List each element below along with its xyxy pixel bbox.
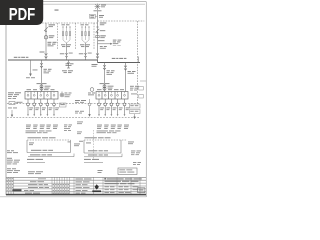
- lineup 2 load name labels: [97, 125, 129, 129]
- title leading mark: [104, 178, 106, 180]
- switchgear lineup 2: [96, 92, 128, 100]
- MCC 1 name underline: [28, 154, 74, 157]
- future note box 1: [130, 104, 141, 108]
- dashed divider: [75, 23, 77, 50]
- rack1 drawout chevrons: [65, 53, 68, 57]
- MCC enclosure 2: [84, 140, 127, 153]
- wire rack2 to bus: [85, 43, 87, 60]
- MCC 1 sub label: [27, 158, 43, 161]
- note box text: [60, 103, 65, 106]
- feeder 3 chevrons: [124, 66, 127, 70]
- feeder 1 chevrons: [40, 63, 43, 67]
- sheet number text: [119, 169, 134, 172]
- title block fields: [105, 186, 144, 193]
- wire center drop: [88, 99, 91, 116]
- company logo: [95, 184, 99, 189]
- lineup 2 labels: [97, 88, 124, 91]
- chevron label: [40, 52, 45, 53]
- dashed enclosure line B: [98, 20, 145, 22]
- left load arrow: [11, 110, 13, 117]
- bus tie: [97, 60, 99, 63]
- dashed right boundary: [137, 21, 139, 104]
- dashed divider: [57, 23, 59, 50]
- note box G1: [60, 103, 67, 107]
- dashed floor line 1: [7, 103, 140, 105]
- generator G1: [60, 92, 64, 97]
- reference bubble 2: [139, 95, 144, 99]
- MCC 1 cable label: [31, 150, 53, 151]
- wire incoming feeder: [97, 9, 99, 23]
- PT rack 1 label: [62, 24, 70, 25]
- breaker label: [49, 35, 55, 38]
- dashed divider: [93, 23, 95, 50]
- transformer T1: [40, 85, 43, 90]
- switch label: [49, 24, 56, 27]
- sheet left frame: [5, 2, 7, 195]
- top note text: [55, 10, 59, 11]
- MCC 1 name label: [30, 153, 52, 156]
- transformer T1 label: [37, 83, 51, 88]
- bus 2 end tick: [138, 57, 140, 63]
- MCC 1 sub underline: [27, 161, 45, 163]
- PT rack 2: [81, 27, 89, 43]
- aux breaker right: [90, 88, 94, 92]
- wire transformer feeder 1: [41, 60, 43, 92]
- PT rack 2 arrow tips: [81, 26, 89, 28]
- PT rack 1: [62, 27, 70, 43]
- switchgear lineup 1: [25, 92, 58, 100]
- right margin tick: [140, 80, 146, 82]
- revision table columns: [9, 177, 141, 194]
- bus 2 note: [92, 64, 98, 67]
- MCC 2 sub label: [84, 158, 99, 161]
- rack2 drop label: [79, 53, 92, 55]
- right load arrow: [134, 114, 136, 119]
- disconnect switch 89-1: [44, 27, 48, 32]
- PT rack 2 value label: [80, 44, 90, 47]
- PT rack 1 arrow tips: [62, 26, 70, 28]
- drawout breaker chevrons: [45, 54, 48, 59]
- MCC enclosure 1 label: [28, 137, 56, 138]
- ground label: [8, 102, 23, 109]
- generator label: [65, 93, 72, 98]
- lineup 1 breakers: [27, 94, 55, 96]
- wire spare feeder: [67, 60, 70, 68]
- left margin notes 2: [7, 158, 20, 165]
- MCC 2 name label: [88, 154, 108, 157]
- rack2 drawout chevrons: [84, 53, 87, 57]
- sheet number cell box: [138, 188, 145, 193]
- lineup 2 feeder drops: [98, 99, 126, 115]
- fuse 2: [96, 36, 99, 38]
- MCC 2 inner marks: [79, 141, 91, 144]
- revision table bottom: [6, 194, 146, 196]
- wire transformer feeder 3: [125, 63, 127, 92]
- wire load B: [30, 60, 32, 76]
- MCC 2 sub underline: [84, 161, 103, 163]
- disconnect switch 89-2: [96, 27, 100, 33]
- wire feeder 2: [97, 23, 99, 60]
- lineup 1 load name labels: [26, 125, 58, 129]
- lineup 1 feeder drops: [27, 99, 56, 115]
- page bottom border: [0, 196, 146, 198]
- small marks left of box: [98, 170, 103, 173]
- meter box text: [90, 15, 94, 17]
- bus 1 4160V: [8, 59, 98, 61]
- sheet inner top frame: [6, 3, 145, 5]
- lineup 1 load arrows: [27, 114, 55, 116]
- lineup 1 drop labels: [29, 108, 59, 111]
- MCC 2 cable label: [88, 150, 108, 151]
- svg-text:PDF: PDF: [9, 4, 36, 24]
- dashed drop line: [93, 130, 95, 160]
- station service notes left: [8, 92, 21, 99]
- MCC enclosure 2 label: [85, 137, 111, 138]
- lineup 2 band notes: [97, 131, 121, 134]
- revision table frame: [6, 177, 146, 192]
- note block center: [75, 100, 86, 113]
- MCC 1 inner marks: [29, 142, 71, 146]
- lineup 1 labels: [27, 88, 55, 91]
- feeder note: [99, 15, 104, 18]
- PDF badge: [0, 0, 43, 25]
- wire branch to generator: [98, 43, 112, 45]
- right lower notes: [128, 142, 141, 165]
- center gap notes: [74, 144, 80, 147]
- breaker 52-1: [44, 36, 47, 39]
- transformer T2 label: [100, 83, 114, 88]
- future note box 1 text: [130, 104, 138, 107]
- dashed floor line 2: [7, 117, 140, 119]
- PT rack 1 value label: [61, 44, 71, 47]
- page top border: [0, 1, 146, 3]
- load B label: [26, 70, 38, 79]
- approval column entries: [76, 179, 92, 194]
- wire rack1 to bus: [66, 43, 68, 60]
- revision entries: [7, 178, 69, 193]
- page right border: [145, 2, 147, 197]
- wire transformer feeder 2: [104, 63, 106, 92]
- bus 2 label: [112, 58, 127, 59]
- feeder 3 cable label: [128, 71, 136, 74]
- branch label: [113, 40, 122, 46]
- general notes: [7, 168, 20, 173]
- lineup 1 compartment ticks: [28, 92, 54, 94]
- lineup 2 load arrows: [98, 114, 125, 116]
- lineup 2 drop labels: [100, 108, 129, 111]
- reference drawings heading: [28, 171, 43, 174]
- side stack notes: [64, 125, 72, 131]
- feeder 1 cable label: [44, 69, 52, 74]
- lineup 2 breakers: [98, 94, 125, 96]
- right margin notes: [130, 86, 139, 95]
- revision filled cell: [13, 189, 22, 191]
- switch 2 label: [100, 22, 107, 31]
- center small notes: [77, 122, 83, 135]
- feeder 2 chevrons: [103, 65, 106, 69]
- ground symbol left: [9, 102, 18, 105]
- wire feeder 1: [45, 23, 47, 60]
- meter box: [90, 14, 98, 18]
- MCC enclosure 1: [27, 140, 71, 153]
- future note box 2: [130, 110, 141, 114]
- transformer T2: [103, 85, 106, 90]
- utility source symbol: [95, 4, 101, 10]
- rack1 drop label: [60, 53, 73, 55]
- sheet number box: [118, 168, 137, 175]
- spare label: [62, 70, 73, 73]
- lineup 2 compartment ticks: [99, 92, 125, 94]
- left margin notes 1: [7, 150, 18, 153]
- feeder 2 notes: [100, 46, 107, 49]
- feeder 2 cable label: [107, 70, 115, 75]
- drawing title text: [105, 178, 142, 184]
- drawout chevrons feeder 2: [96, 54, 99, 59]
- dashed enclosure line A: [7, 22, 98, 24]
- bus 1 label: [14, 57, 29, 58]
- MCC 2 name underline: [84, 154, 122, 157]
- lineup 1 band notes: [26, 131, 52, 134]
- bus 2 4160V: [98, 62, 141, 64]
- bus 1 below note: [66, 63, 74, 66]
- PT rack 2 label: [81, 24, 89, 25]
- logo name bar: [92, 190, 101, 192]
- feeder 1 notes: [48, 42, 57, 47]
- fuse 2 label: [98, 35, 106, 41]
- source label: [94, 5, 107, 12]
- reference bubble 1: [139, 87, 144, 91]
- aux notes: [88, 93, 95, 96]
- future note box 2 text: [130, 110, 138, 113]
